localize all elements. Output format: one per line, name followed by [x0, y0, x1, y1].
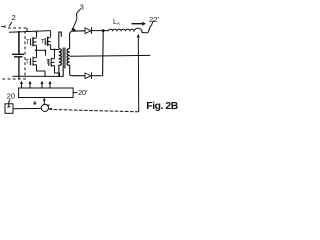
- label minus: [47, 104, 50, 106]
- wire output hump: [134, 28, 147, 33]
- wire T3 source to bottom rail: [37, 65, 46, 77]
- transistor T1: [26, 37, 37, 46]
- svg-text:T2: T2: [41, 39, 48, 45]
- leader for label 2: [9, 22, 12, 27]
- svg-text:Fig. 2B: Fig. 2B: [146, 101, 178, 112]
- node input cap top junction: [18, 31, 20, 33]
- dashed enclosure 2: [2, 25, 27, 79]
- inductor LA: [103, 29, 134, 31]
- wire node down to D2: [102, 31, 105, 76]
- svg-text:20′: 20′: [78, 88, 88, 97]
- wire summer output arrow: [43, 100, 45, 104]
- wire reference to summer: [13, 107, 41, 109]
- wire output lead to 22': [147, 21, 154, 33]
- wire T1 source to mid rail: [36, 45, 38, 50]
- transformer primary top hook: [59, 32, 62, 49]
- wire T2 drain from top rail: [50, 31, 52, 37]
- node cap bottom junction: [18, 75, 20, 77]
- transistor T3: [25, 50, 36, 65]
- box 20' drive unit: [19, 88, 74, 98]
- leader arrow tip 3: [72, 28, 75, 30]
- wire secondary top terminal: [70, 31, 85, 49]
- node leg A midpoint: [36, 49, 38, 51]
- gate drive arrow 3: [41, 83, 43, 88]
- gate drive arrow 4: [49, 83, 51, 88]
- node T4 drain junction: [54, 49, 56, 51]
- current arrow IA: [132, 23, 144, 25]
- transformer primary winding: [59, 49, 62, 66]
- wire D1 cathode to node: [92, 30, 104, 32]
- wire mid rail leg A: [35, 50, 46, 56]
- wire capacitor branch upper: [18, 32, 20, 54]
- wire secondary center tap rail: [70, 54, 151, 57]
- node rectifier output: [102, 29, 105, 32]
- wire bottom rail: [13, 75, 64, 77]
- reference source box 20: [5, 104, 13, 114]
- capacitor C: [12, 54, 24, 57]
- wire primary bottom: [58, 65, 60, 76]
- feedback sense arrow: [137, 34, 140, 38]
- feedback arrowhead into summer: [49, 108, 53, 111]
- svg-text:22′: 22′: [149, 15, 159, 24]
- wire D2 cathode: [92, 75, 103, 77]
- wire stub to dashed edge: [18, 76, 20, 79]
- node T1 drain junction: [36, 31, 38, 33]
- reference symbol tick: [7, 102, 10, 108]
- node mid rail right junction: [44, 50, 46, 52]
- wire feedback dashed return: [49, 109, 138, 111]
- gate drive arrow 1: [21, 83, 23, 88]
- diode D1: [85, 27, 92, 34]
- wire capacitor branch lower: [18, 57, 20, 76]
- svg-text:3: 3: [80, 3, 84, 12]
- dashed box left dash: [1, 26, 4, 28]
- transistor T4: [46, 50, 55, 67]
- label plus: [33, 101, 36, 105]
- wire secondary bottom terminal: [70, 65, 85, 76]
- wire T1 drain: [36, 32, 38, 38]
- leader for 20': [73, 91, 77, 94]
- svg-text:2: 2: [12, 13, 16, 22]
- svg-text:T4: T4: [46, 60, 53, 66]
- leader squiggle for 3: [73, 10, 80, 29]
- gate drive arrow 2: [29, 83, 31, 88]
- wire feedback vertical: [137, 38, 139, 112]
- summer circle: [41, 104, 48, 111]
- svg-text:20: 20: [7, 92, 15, 101]
- transformer core lines: [63, 48, 65, 77]
- svg-text:LA: LA: [113, 19, 121, 26]
- wire T4 source to bottom rail: [55, 66, 60, 77]
- svg-text:T1: T1: [26, 40, 33, 46]
- wire T2 source to primary top: [51, 45, 59, 50]
- wire top rail: [9, 31, 51, 33]
- transistor T2: [41, 37, 51, 46]
- diode D2: [85, 72, 92, 79]
- transformer secondary winding: [67, 49, 70, 66]
- leader for 20: [9, 100, 10, 103]
- svg-text:T3: T3: [25, 60, 32, 66]
